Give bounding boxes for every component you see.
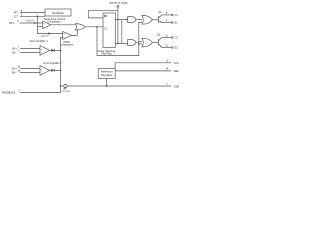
svg-text:8: 8 (166, 12, 168, 15)
transistor Q2 (157, 39, 159, 46)
svg-text:Comparator: Comparator (47, 20, 60, 23)
svg-text:Error Amplifier 2: Error Amplifier 2 (44, 62, 63, 65)
pin C2 circle (171, 37, 173, 39)
wire C2 (162, 37, 172, 39)
wire sawtooth to dead-time comparator minus input (37, 25, 42, 27)
svg-text:12: 12 (166, 60, 169, 63)
wire VCC rail (115, 62, 171, 64)
node output ctrl and gate 1 junction (117, 19, 119, 21)
current source arrow (63, 88, 66, 90)
pulse-steering flip-flop box (103, 13, 115, 48)
wire and2 to or2 (136, 41, 142, 42)
svg-text:Flip-Flop: Flip-Flop (101, 52, 112, 56)
node comparator output junction (96, 26, 98, 28)
wire CT to oscillator (20, 15, 45, 17)
wire REF rail (115, 70, 171, 72)
svg-text:Q2: Q2 (157, 33, 161, 37)
svg-text:1IN+: 1IN+ (11, 47, 17, 50)
svg-text:14: 14 (166, 68, 169, 71)
node output ctrl and gate 2 junction (117, 43, 119, 45)
svg-text:OUTPUT CTRL: OUTPUT CTRL (109, 1, 128, 5)
svg-text:C1: C1 (175, 14, 179, 17)
current source 0.7 mA circle (64, 84, 67, 87)
svg-text:2IN+: 2IN+ (11, 67, 17, 70)
svg-text:1IN−: 1IN− (11, 51, 17, 54)
transistor Q1 (157, 16, 159, 23)
wire diode1 to feedback bus (55, 49, 61, 51)
svg-text:Oscillator: Oscillator (52, 11, 65, 15)
wire C1 (162, 14, 172, 16)
wire ground rail (67, 85, 171, 87)
pwm comparator U2 (63, 32, 72, 40)
wire comparator node down and around to output gates (97, 22, 142, 55)
wire vertical link between gate rows (121, 19, 123, 43)
svg-text:Regulator: Regulator (101, 73, 112, 77)
wire 2IN- (20, 71, 40, 73)
node 0.7mA branch junction (60, 85, 62, 87)
wire output ctrl over flip-flop to left input (88, 11, 118, 18)
wire 1IN- (20, 51, 40, 53)
svg-text:10: 10 (165, 44, 168, 47)
svg-text:E1: E1 (175, 22, 179, 25)
wire pwm comparator output to OR gate (72, 28, 78, 35)
reference regulator box (98, 69, 115, 79)
pin E1 circle (171, 22, 173, 24)
wire 1IN+ (20, 47, 40, 49)
svg-text:DTC: DTC (9, 21, 14, 25)
wire amp2 output (50, 69, 52, 71)
svg-text:1: 1 (18, 46, 20, 49)
diode D1 (51, 49, 54, 52)
wire regulator to ground rail (106, 79, 108, 87)
svg-text:FEEDBACK: FEEDBACK (2, 91, 16, 94)
wire amp1 output (50, 49, 52, 51)
node amp1 feedback junction (60, 50, 62, 52)
wire dead-time comparator output (51, 24, 76, 26)
svg-text:GND: GND (174, 85, 179, 88)
wire or2 to Q2 base (152, 42, 158, 44)
error amplifier 2 triangle (40, 66, 50, 76)
svg-text:CT: CT (14, 14, 18, 18)
wire feedback bus vertical (20, 37, 63, 92)
or-gate comparator combiner (75, 24, 85, 30)
wire flip-flop Qbar to and gate 2 (115, 43, 127, 45)
diode D2 (51, 69, 54, 72)
svg-text:C2: C2 (175, 37, 179, 40)
wire stub to OR2 lower input (139, 43, 142, 45)
svg-text:9: 9 (166, 20, 168, 23)
wire bus to current source (61, 85, 64, 87)
node CT sawtooth junction (37, 15, 39, 17)
svg-text:7: 7 (166, 83, 168, 86)
node amp2 feedback junction (60, 70, 62, 72)
wire 2IN+ (20, 67, 40, 69)
svg-text:Error Amplifier 1: Error Amplifier 1 (30, 40, 49, 43)
offset source 0.7V symbol (49, 32, 51, 35)
svg-text:VCC: VCC (174, 62, 179, 65)
oscillator box (45, 9, 71, 16)
wire or-gate output to flip-flop (85, 26, 103, 28)
node and1 input junction (126, 19, 127, 20)
svg-text:+0.12 V: +0.12 V (26, 19, 35, 22)
flip-flop clock circle (104, 15, 106, 17)
and gate G1 (128, 17, 136, 23)
or gate G4 (142, 38, 152, 47)
offset source 0.12V symbol (34, 22, 36, 25)
pin C1 circle (171, 14, 173, 16)
svg-text:+0.7 V: +0.7 V (41, 35, 48, 38)
svg-text:0.7 mA: 0.7 mA (62, 90, 70, 93)
wire sawtooth to pwm comparator plus input (37, 33, 62, 35)
wire E2 (162, 46, 172, 48)
svg-text:11: 11 (165, 35, 168, 38)
svg-text:Q1: Q1 (158, 10, 162, 14)
node OR2 lower input junction (138, 43, 140, 45)
wire E1 (162, 22, 172, 24)
error amplifier 1 triangle (40, 46, 50, 56)
svg-text:2: 2 (18, 50, 20, 53)
wire and1 to or1 (136, 18, 142, 20)
svg-text:2IN−: 2IN− (11, 71, 17, 74)
node regulator ground junction (106, 85, 108, 87)
pin OUTPUT CTRL circle (117, 5, 119, 7)
svg-text:4: 4 (17, 19, 19, 23)
and gate G2 (128, 40, 136, 46)
or gate G3 (142, 15, 152, 24)
svg-text:E2: E2 (175, 46, 179, 49)
wire RT to oscillator (20, 12, 45, 14)
wire flip-flop Q to and gate 1 (115, 18, 127, 20)
svg-text:Comparator: Comparator (60, 44, 73, 47)
svg-text:REF: REF (174, 70, 179, 73)
wire DTC to dead-time comparator (20, 22, 44, 24)
pin E2 circle (171, 47, 173, 49)
dead-time control comparator U1 (43, 21, 51, 29)
wire regulator to vcc (114, 63, 116, 69)
wire diode2 to feedback bus (55, 69, 61, 71)
wire or1 to Q1 base (152, 19, 158, 21)
wire sawtooth vertical (36, 16, 38, 33)
wire output ctrl vertical (117, 7, 119, 43)
